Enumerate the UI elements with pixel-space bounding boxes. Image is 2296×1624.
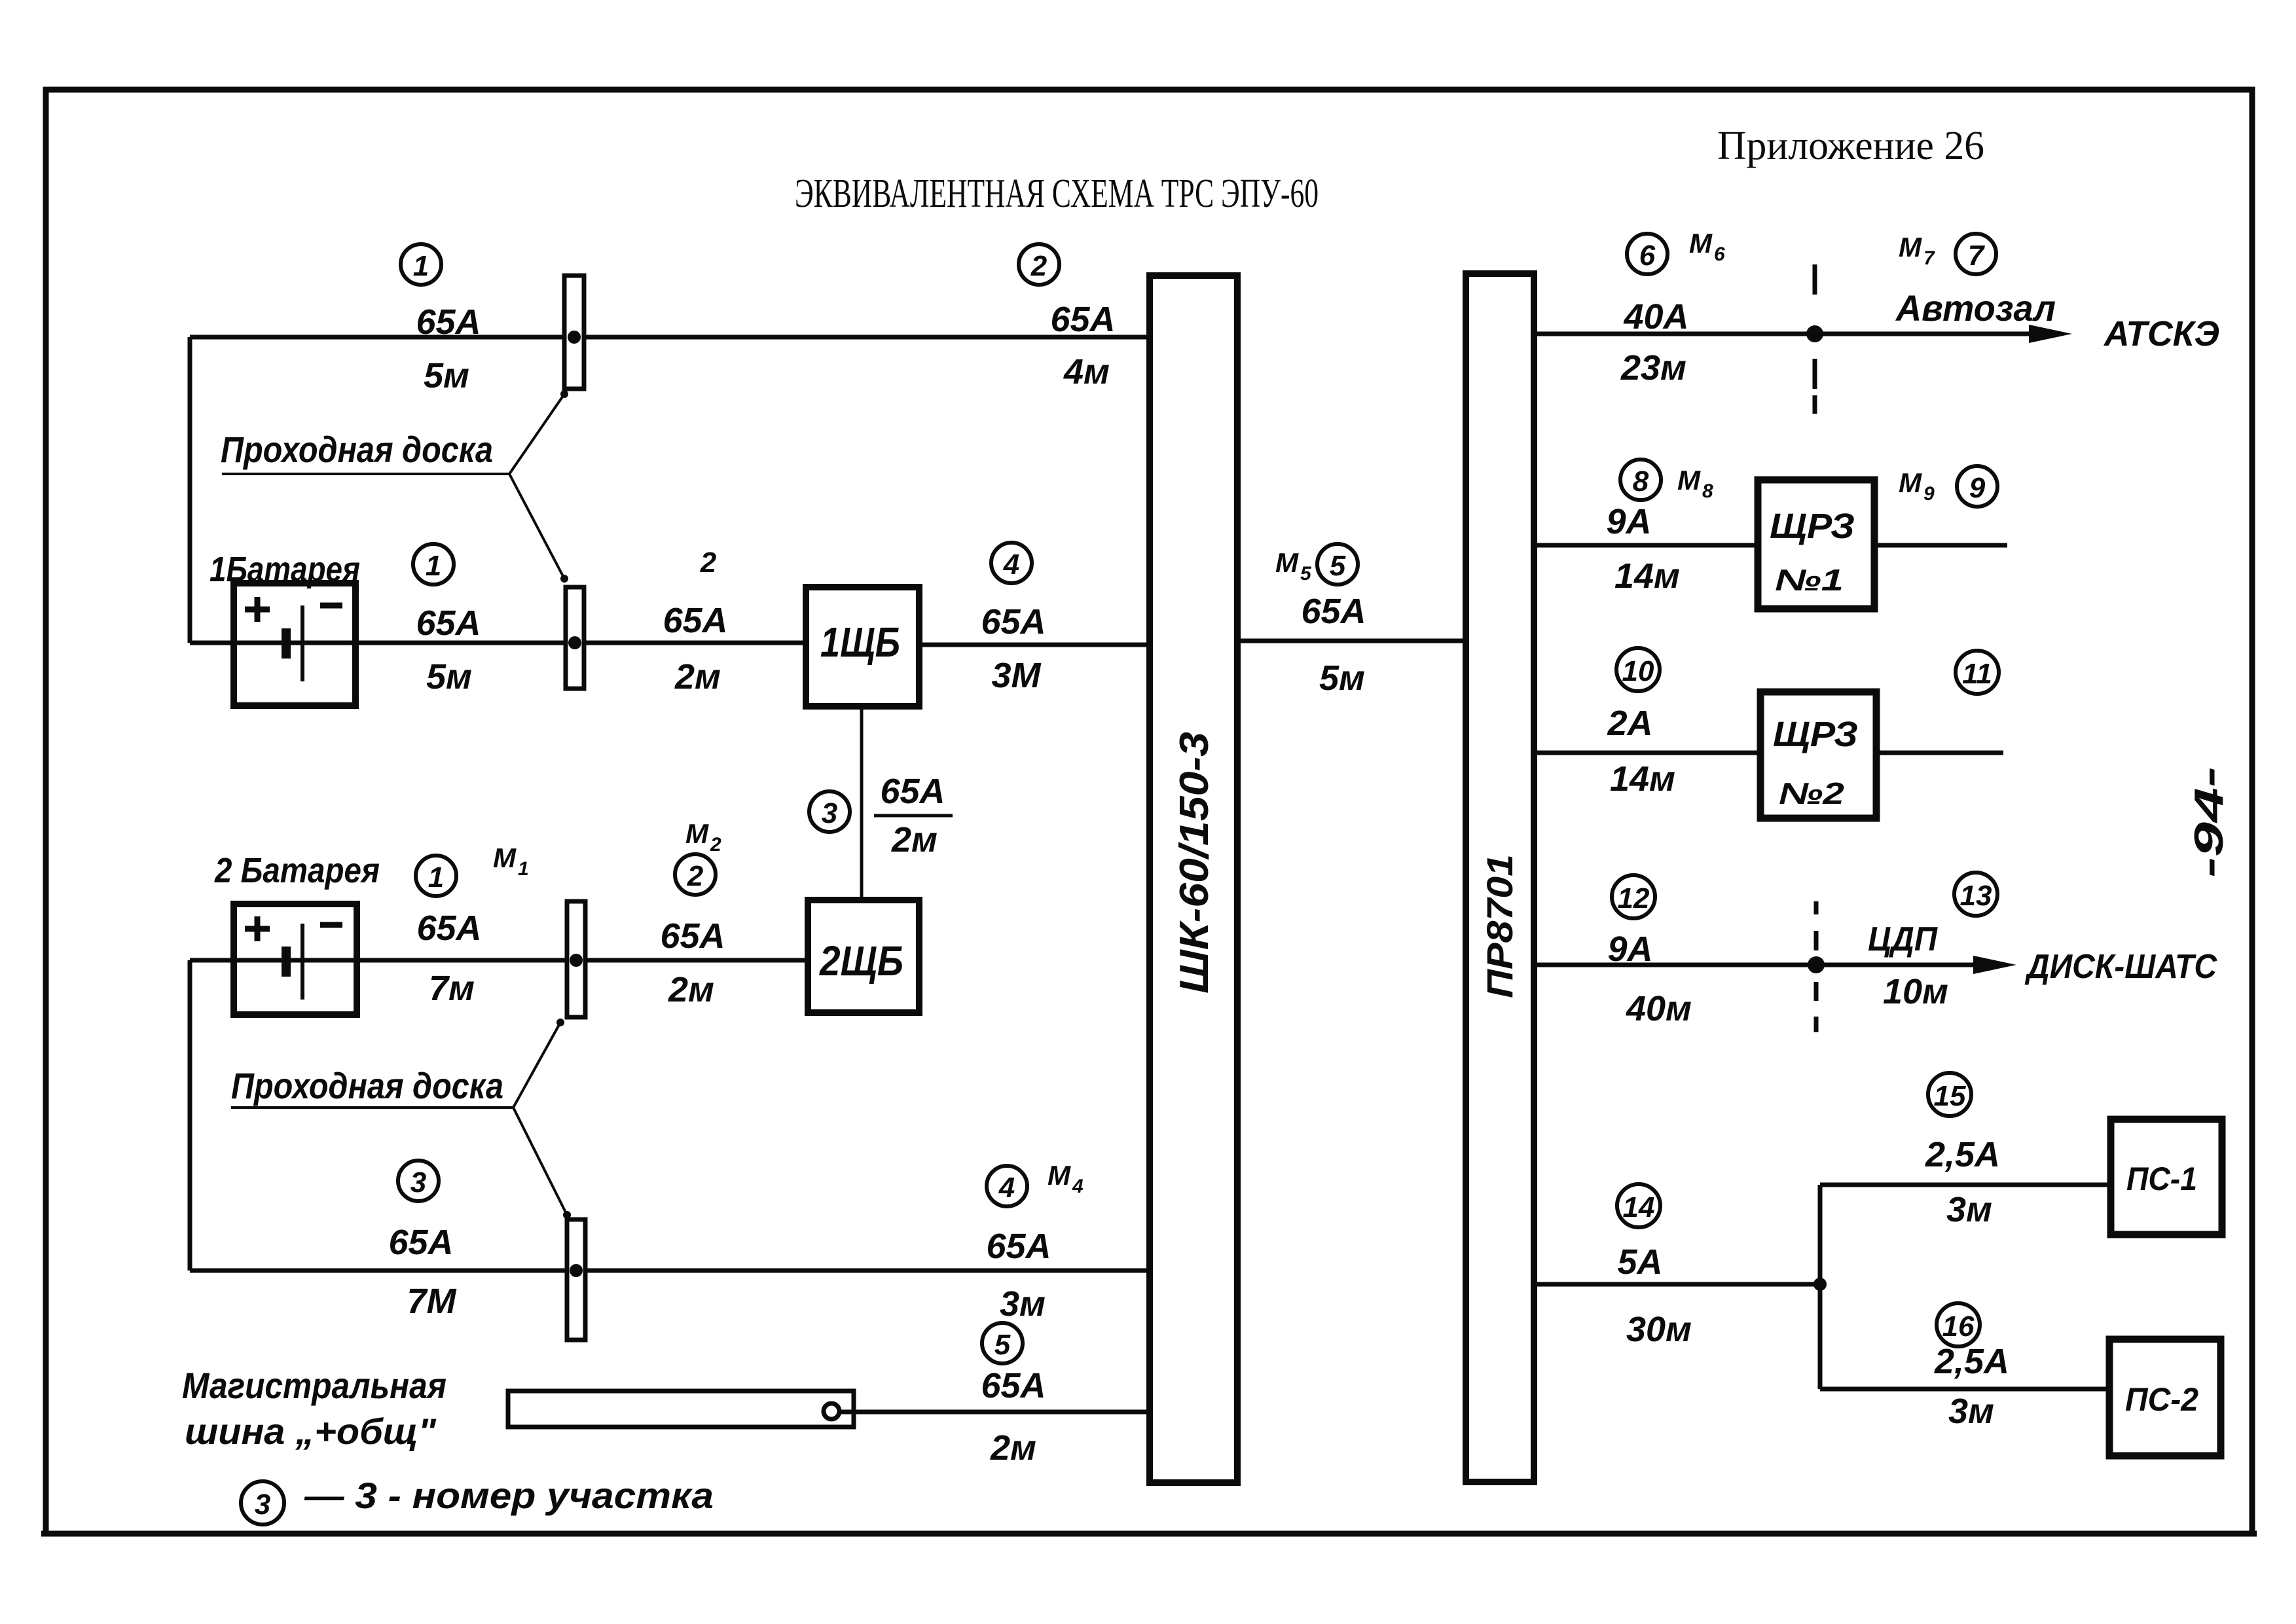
battery 2 plus sign <box>245 916 270 941</box>
svg-text:7: 7 <box>1923 247 1935 269</box>
svg-text:1Батарея: 1Батарея <box>210 550 360 589</box>
svg-text:М: М <box>685 818 709 849</box>
svg-text:М: М <box>1689 228 1713 259</box>
svg-text:ЩРЗ: ЩРЗ <box>1770 507 1855 546</box>
node label: circled 13 <box>1954 873 1997 916</box>
box 1ЩБ <box>806 587 919 706</box>
svg-text:4: 4 <box>1072 1176 1084 1197</box>
box ПС-1 <box>2111 1119 2222 1235</box>
svg-text:65А: 65А <box>981 1366 1046 1405</box>
svg-text:1: 1 <box>413 250 429 282</box>
node: junction on F4 <box>570 1264 583 1277</box>
svg-text:4м: 4м <box>1063 352 1110 391</box>
svg-text:ПС-2: ПС-2 <box>2125 1381 2198 1418</box>
node label: circled 6 with М6 (АТСКЭ row) <box>1627 234 1667 274</box>
svg-text:М: М <box>1677 465 1701 496</box>
svg-text:3М: 3М <box>991 656 1041 695</box>
label: Проходная доска (lower) with leader lines <box>231 1019 571 1219</box>
svg-text:11: 11 <box>1962 658 1992 690</box>
svg-text:5м: 5м <box>424 356 469 395</box>
wire: segment 14 from ПР to branch <box>1534 1282 1820 1287</box>
fuse board F2 (battery 1 row) <box>566 587 584 689</box>
svg-text:Проходная доска: Проходная доска <box>231 1065 503 1106</box>
node: junction on segment 12 <box>1808 956 1825 973</box>
svg-text:ЭКВИВАЛЕНТНАЯ СХЕМА ТРС ЭПУ-60: ЭКВИВАЛЕНТНАЯ СХЕМА ТРС ЭПУ-60 <box>795 171 1319 216</box>
svg-text:65А: 65А <box>660 916 725 956</box>
svg-text:2: 2 <box>1030 250 1048 282</box>
svg-text:14м: 14м <box>1610 759 1675 799</box>
svg-text:№1: №1 <box>1775 563 1844 597</box>
box ЩРЗ №1 <box>1758 480 1874 609</box>
node label: circled 8 with М8 <box>1620 460 1661 500</box>
wire: 1ЩБ to ШК bus (segment 4) <box>919 643 1150 647</box>
svg-text:65А: 65А <box>1301 592 1366 631</box>
svg-text:Проходная доска: Проходная доска <box>221 429 493 470</box>
svg-text:— 3 - номер участка: — 3 - номер участка <box>304 1475 714 1516</box>
svg-text:13: 13 <box>1960 880 1992 912</box>
svg-text:6: 6 <box>1714 244 1725 265</box>
svg-text:ПС-1: ПС-1 <box>2126 1161 2197 1197</box>
wire: branch vertical <box>1818 1185 1823 1389</box>
svg-text:ПР8701: ПР8701 <box>1479 854 1520 998</box>
battery 2 cell long plate <box>301 924 304 1000</box>
wire: left vertical riser battery 1 <box>188 337 192 643</box>
svg-text:2А: 2А <box>1607 704 1652 743</box>
arrowhead АТСКЭ <box>2029 325 2072 343</box>
wire: ШК to ПР (segment 5, М5) <box>1237 639 1466 643</box>
svg-text:3: 3 <box>822 797 837 829</box>
arrowhead ДИСК-ШАТС <box>1973 956 2016 974</box>
svg-text:16: 16 <box>1942 1310 1975 1343</box>
node label: circled 2 (top row) <box>1019 244 1059 285</box>
wire: segment 12 to ДИСК-ШАТС with arrow <box>1534 963 1974 967</box>
svg-text:2: 2 <box>700 547 717 579</box>
wire: segment 6 to АТСКЭ with arrow <box>1534 332 2030 336</box>
svg-text:65А: 65А <box>880 772 945 811</box>
svg-text:М: М <box>1899 232 1922 262</box>
svg-text:4: 4 <box>1003 549 1019 581</box>
svg-text:2: 2 <box>687 860 704 892</box>
node: junction on F3 <box>570 954 583 967</box>
svg-text:АТСКЭ: АТСКЭ <box>2103 314 2219 353</box>
svg-text:2м: 2м <box>674 657 721 696</box>
svg-text:шина „+общ": шина „+общ" <box>185 1411 437 1452</box>
wire: segment 16 to ПС-2 <box>1820 1387 2109 1392</box>
svg-text:40м: 40м <box>1626 989 1692 1028</box>
svg-text:1ЩБ: 1ЩБ <box>820 619 900 666</box>
svg-text:5: 5 <box>994 1329 1011 1361</box>
bus cabinet ШК-60/150-3 <box>1150 276 1237 1483</box>
svg-text:65А: 65А <box>981 602 1046 641</box>
svg-text:ЦДП: ЦДП <box>1868 920 1938 958</box>
node label: circled 14 <box>1617 1184 1660 1227</box>
wire: left vertical riser battery 2 <box>188 960 192 1271</box>
svg-text:65А: 65А <box>986 1227 1051 1266</box>
svg-text:Приложение 26: Приложение 26 <box>1717 124 1984 168</box>
wire: battery 2 row to 2ЩБ <box>190 958 808 963</box>
svg-text:5: 5 <box>1300 563 1312 585</box>
svg-text:9: 9 <box>1969 472 1986 504</box>
svg-text:7М: 7М <box>407 1282 456 1321</box>
battery 2Батарея box <box>234 904 357 1015</box>
svg-text:2м: 2м <box>668 970 714 1009</box>
svg-text:2,5А: 2,5А <box>1925 1135 2000 1174</box>
wire: segment 8 to ЩРЗ №1 <box>1534 543 2007 548</box>
node label: circled 11 <box>1956 651 1999 694</box>
svg-text:3м: 3м <box>1946 1190 1992 1229</box>
wire: segment 15 to ПС-1 <box>1820 1183 2111 1187</box>
svg-text:65А: 65А <box>388 1223 453 1262</box>
battery 1 plus sign <box>245 597 270 622</box>
svg-text:6: 6 <box>1639 240 1656 272</box>
node: junction on F2 <box>568 636 581 649</box>
svg-text:3м: 3м <box>1000 1284 1046 1324</box>
wire: top segment 1 (battery loop top) <box>190 335 1150 340</box>
node label: circled 10 <box>1616 648 1660 691</box>
svg-text:№2: №2 <box>1779 776 1845 810</box>
svg-text:Автозал: Автозал <box>1895 287 2056 329</box>
svg-text:3м: 3м <box>1948 1392 1994 1431</box>
node label: circled 3 (between ЩБ) with fraction 65А/2м <box>809 791 850 832</box>
node label: circled 3 (bottom left row) <box>398 1161 439 1201</box>
wire: bottom row segments 3-4 to ШК <box>190 1269 1150 1273</box>
svg-text:65А: 65А <box>416 604 481 643</box>
svg-text:Магистральная: Магистральная <box>182 1365 446 1406</box>
svg-text:65А: 65А <box>1050 300 1115 339</box>
bus bar Магистральная шина +общ <box>508 1391 854 1427</box>
battery 1 cell short plate <box>282 628 291 659</box>
svg-text:8: 8 <box>1702 480 1713 502</box>
battery 1 minus sign <box>320 603 342 609</box>
fuse board F3 (battery 2 row) <box>567 901 585 1017</box>
svg-text:1: 1 <box>428 861 444 893</box>
svg-text:3: 3 <box>255 1489 270 1521</box>
svg-text:М: М <box>1048 1160 1071 1191</box>
svg-text:2 Батарея: 2 Батарея <box>214 851 380 890</box>
svg-text:4: 4 <box>998 1172 1015 1204</box>
box ПС-2 <box>2109 1339 2221 1456</box>
svg-text:ШК-60/150-3: ШК-60/150-3 <box>1172 732 1217 994</box>
svg-text:5м: 5м <box>1319 659 1365 698</box>
svg-text:2: 2 <box>710 834 721 856</box>
svg-text:ДИСК-ШАТС: ДИСК-ШАТС <box>2024 948 2217 986</box>
node label: circled 12 <box>1612 875 1655 918</box>
box ЩРЗ №2 <box>1760 692 1876 818</box>
node label: circled 15 <box>1928 1073 1971 1116</box>
svg-text:1: 1 <box>518 858 529 880</box>
svg-text:15: 15 <box>1934 1080 1966 1112</box>
svg-text:2м: 2м <box>990 1428 1036 1468</box>
svg-text:65А: 65А <box>663 601 727 640</box>
svg-text:23м: 23м <box>1620 348 1686 388</box>
distribution box ПР8701 <box>1466 274 1534 1482</box>
battery 1Батарея box <box>234 583 355 706</box>
svg-text:М: М <box>493 842 517 873</box>
svg-text:14: 14 <box>1623 1191 1655 1223</box>
box 2ЩБ <box>808 900 919 1013</box>
svg-text:65А: 65А <box>416 302 481 342</box>
svg-text:9А: 9А <box>1606 502 1651 541</box>
node label: circled 16 <box>1937 1303 1980 1346</box>
battery 2 cell short plate <box>282 947 291 977</box>
wire: 1ЩБ to 2ЩБ vertical (segment 3) <box>860 706 864 900</box>
battery 1 cell long plate <box>301 605 304 681</box>
svg-text:7м: 7м <box>429 969 475 1008</box>
svg-text:10: 10 <box>1622 655 1654 687</box>
svg-text:10м: 10м <box>1883 972 1948 1011</box>
svg-text:М: М <box>1899 467 1922 498</box>
svg-text:12: 12 <box>1618 882 1650 914</box>
node label: circled 4 with М4 (bottom row) <box>987 1166 1027 1206</box>
svg-text:8: 8 <box>1633 465 1649 497</box>
node label: circled 5 (bus bar row) <box>982 1323 1023 1363</box>
svg-text:5А: 5А <box>1617 1242 1662 1282</box>
wire: segment 10 to ЩРЗ №2 <box>1534 751 2003 755</box>
svg-text:5: 5 <box>1330 550 1346 582</box>
node label: circled 1 with М1 (battery 2 row) <box>416 856 456 896</box>
svg-text:40А: 40А <box>1623 297 1688 336</box>
dashed boundary line (Автозал) <box>1813 264 1817 414</box>
fuse board F1 (top row) <box>564 276 584 389</box>
svg-text:9А: 9А <box>1607 929 1652 969</box>
svg-text:9: 9 <box>1923 483 1935 505</box>
svg-text:2,5А: 2,5А <box>1934 1342 2009 1381</box>
node: junction on segment 6 <box>1806 325 1823 342</box>
svg-text:3: 3 <box>410 1166 426 1199</box>
svg-text:2ЩБ: 2ЩБ <box>819 937 903 984</box>
node label: circled 1 (battery 1 row) <box>413 544 454 585</box>
svg-text:7: 7 <box>1968 240 1986 272</box>
svg-text:-94-: -94- <box>2187 767 2232 878</box>
node: junction on F1 <box>568 331 581 344</box>
svg-text:65А: 65А <box>416 909 481 948</box>
legend: circled 3 explanation <box>241 1481 284 1525</box>
label: Проходная доска (upper) with leader lines <box>221 390 568 583</box>
svg-text:5м: 5м <box>426 657 472 696</box>
node label: circled 1 (top row) <box>401 244 441 285</box>
wire: battery 1 row to 1ЩБ <box>190 641 806 645</box>
dashed boundary line (ЦДП) <box>1814 901 1819 1032</box>
svg-text:М: М <box>1275 547 1299 578</box>
svg-text:14м: 14м <box>1614 556 1680 596</box>
wire: bus bar to ШК (segment 5) <box>838 1410 1150 1415</box>
svg-text:1: 1 <box>426 550 441 582</box>
svg-text:ЩРЗ: ЩРЗ <box>1773 715 1858 754</box>
svg-text:2м: 2м <box>891 820 938 859</box>
node label: circled 4 (top, 1ЩБ-ШК) <box>991 543 1032 583</box>
svg-text:30м: 30м <box>1626 1310 1692 1349</box>
fuse board F4 (bottom row) <box>567 1219 585 1340</box>
node: branch junction <box>1813 1278 1827 1291</box>
battery 2 minus sign <box>320 922 342 928</box>
